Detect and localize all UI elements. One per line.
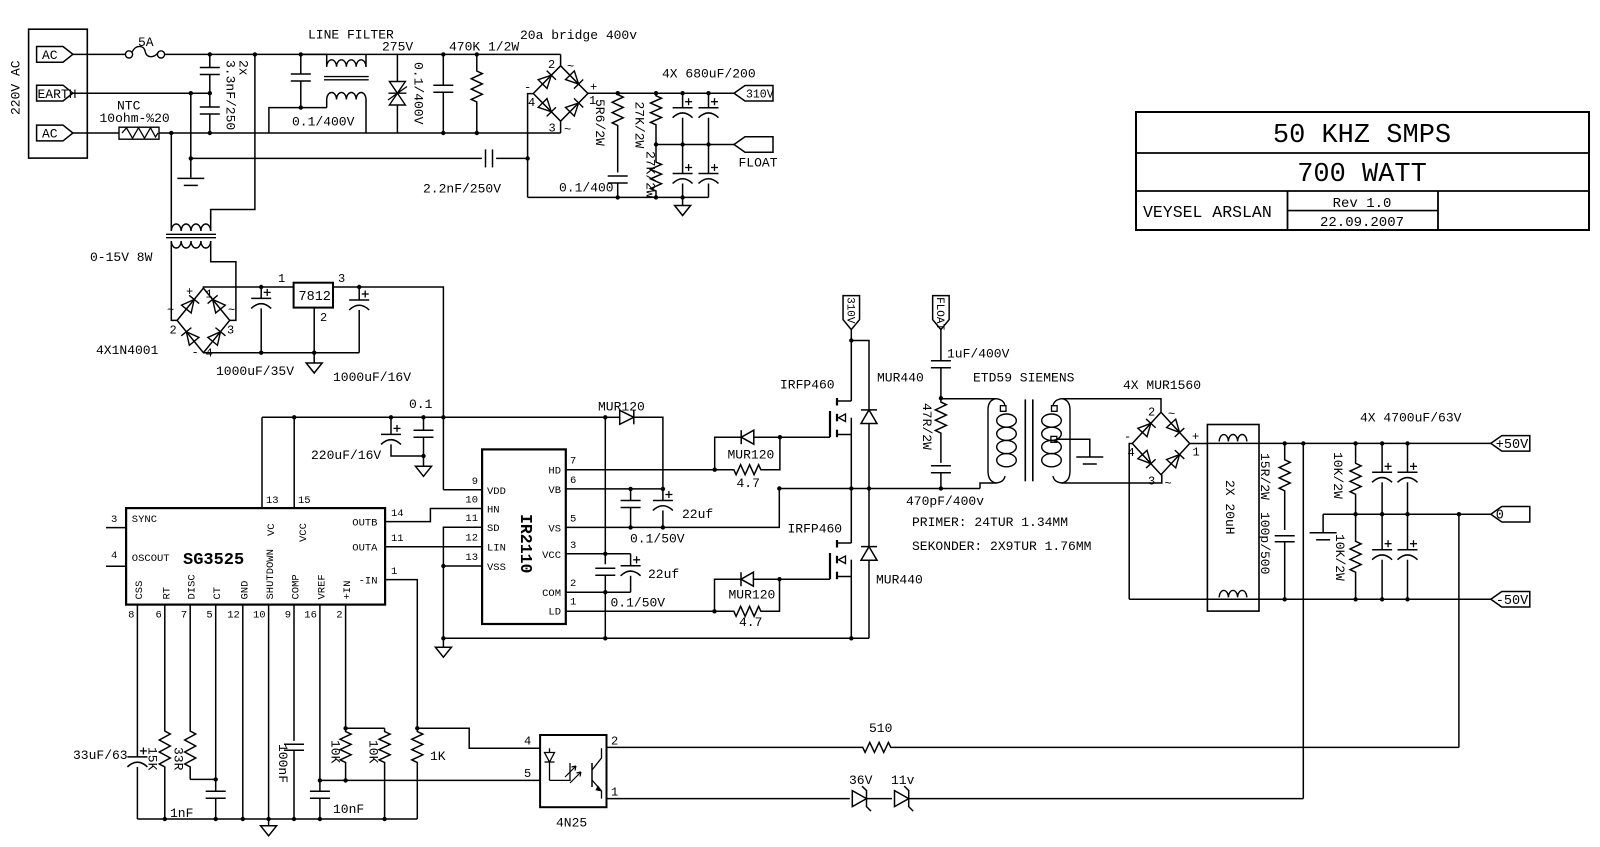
ground triangle SG3525 rail [268,819,270,826]
wire aux minus rail [203,352,359,354]
svg-text:0.1/400V: 0.1/400V [292,115,355,130]
wire bridge plus rail 310V [588,92,734,94]
wire -50V rail [1129,598,1491,600]
svg-text:OSCOUT: OSCOUT [132,553,170,565]
wire pin2 +IN down [345,605,347,729]
diode MUR120 upper gate [715,437,742,470]
resistor 27K/2W lower [651,145,662,198]
wire half-bridge mid rail [779,488,980,490]
ground triangle at 0.1 bypass [416,466,432,476]
wire 12V rail [262,416,605,418]
svg-text:2: 2 [336,610,342,622]
svg-text:20a bridge 400v: 20a bridge 400v [520,28,637,43]
svg-text:+: + [186,285,193,299]
svg-text:0.1/400V: 0.1/400V [411,62,426,125]
zener diode 36V [852,791,866,807]
wire gate upper MOSFET [780,436,830,438]
svg-text:4X MUR1560: 4X MUR1560 [1123,378,1201,393]
bridge rectifier 4X MUR1560 [1132,412,1189,474]
wire VCC pin15 riser [293,417,295,508]
4N25 internal light arrows [565,766,576,777]
resistor 4.7 upper [734,465,761,475]
resistor 10K first [346,727,385,729]
svg-text:2: 2 [1148,406,1155,420]
transformer T1 ETD59 primary [988,399,996,483]
svg-text:LD: LD [548,607,561,619]
flag FLOAT [734,137,773,153]
svg-text:2.2nF/250V: 2.2nF/250V [423,182,501,197]
wire aux plus rail [203,287,293,288]
wire 7812 ground pin 2 [313,308,315,363]
4N25 internal transistor [591,763,593,787]
svg-text:-: - [524,81,531,95]
svg-text:50 KHZ SMPS: 50 KHZ SMPS [1273,121,1451,151]
svg-text:CSS: CSS [134,581,146,600]
wire pin9 COMP down [293,605,295,741]
capacitor 2.2nF/250V [485,149,487,167]
svg-text:4X 680uF/200: 4X 680uF/200 [662,67,756,82]
wire 2.2nF to bridge minus [496,157,527,159]
resistor 470K 1/2W [471,54,482,133]
svg-text:2: 2 [611,735,618,749]
svg-text:~: ~ [567,60,574,74]
svg-text:GND: GND [239,581,251,600]
svg-text:~: ~ [167,304,174,318]
wire upper source to mid rail [850,435,852,489]
svg-text:VC: VC [266,523,278,536]
capacitor 10nF [310,790,330,792]
title block column dividers [1287,191,1289,230]
capacitor 220uF/16V [390,417,392,434]
svg-text:5: 5 [570,513,576,525]
wire mid rail to lower drain [850,489,852,544]
IC U4 4N25 body [540,735,606,807]
wire 1K node to opto pin4 [417,728,540,748]
secondary center tap square [1051,436,1057,442]
capacitor 4700uF top-right [1407,443,1409,472]
svg-text:+50V: +50V [1496,438,1529,453]
wire pin10 SHUTDOWN down [268,605,270,819]
svg-text:7: 7 [570,456,576,468]
wire bridge minus to -50V rail [1129,444,1132,600]
svg-text:2: 2 [170,324,177,338]
wire 7812 output [333,287,443,490]
svg-text:4N25: 4N25 [556,816,587,831]
SG3525 ground rail [137,818,417,820]
varistor 275V [396,54,398,81]
transistor Q2 IRFP460 lower [829,553,831,579]
svg-text:22uf: 22uf [682,507,713,522]
svg-text:SG3525: SG3525 [183,551,244,570]
wire pin6 RT down / resistor 15K [159,605,170,819]
capacitor 680uF bottom-right [708,145,710,174]
flag FLOAT above transformer [933,296,950,330]
pin 3 SYNC [106,527,126,529]
wire center tap to earth [1057,439,1090,456]
svg-text:470pF/400v: 470pF/400v [906,494,984,509]
svg-text:IRFP460: IRFP460 [788,522,843,537]
diode MUR120 lower gate [715,579,742,611]
svg-text:5: 5 [206,610,212,622]
capacitor 0.1/400V second [442,54,444,85]
resistor 10K second [379,728,390,819]
svg-text:0.1: 0.1 [409,397,433,412]
svg-text:33uF/63: 33uF/63 [73,748,128,763]
capacitor 1000uF/16V [358,287,360,300]
svg-text:DISC: DISC [187,574,199,599]
svg-text:VS: VS [548,523,561,535]
wire fuse to line-filter node [165,53,561,55]
capacitor 680uF top-right [708,93,710,108]
svg-text:HD: HD [548,466,561,478]
inductor lower winding [1219,590,1247,597]
resistor 15R/2W [1279,443,1290,530]
flag 310V above half-bridge [850,330,852,341]
svg-text:4: 4 [111,550,117,562]
svg-text:10K: 10K [328,740,343,764]
svg-text:1uF/400V: 1uF/400V [947,347,1010,362]
wire aux primary tap from AC line [211,54,255,219]
svg-text:ETD59 SIEMENS: ETD59 SIEMENS [973,371,1075,386]
wire AC line to fuse [73,53,126,55]
capacitor 4700uF bottom-left [1381,514,1383,550]
svg-text:14: 14 [391,508,404,520]
svg-text:MUR120: MUR120 [729,588,776,603]
diode MUR440 lower [868,489,870,547]
wire LD pin1 row [566,610,734,612]
line filter core [324,76,369,78]
inductor upper winding [1219,435,1247,442]
svg-text:11: 11 [465,513,478,525]
title block border [1136,112,1589,230]
transformer core ETD59 [1024,399,1026,481]
capacitor 22uf lower [630,554,632,566]
svg-text:FLOAT: FLOAT [739,156,778,171]
svg-text:1: 1 [391,566,397,578]
svg-text:510: 510 [869,721,892,736]
svg-text:1000uF/16V: 1000uF/16V [333,370,411,385]
IC U3 IR2110 body [482,449,566,624]
junction dots on AC line [208,52,212,56]
svg-text:VCC: VCC [542,550,561,562]
wire pin12 GND down [242,605,244,819]
wire gate lower MOSFET [780,578,831,580]
svg-text:~: ~ [564,123,571,137]
wire primary top lead [941,398,996,400]
svg-text:IRFP460: IRFP460 [780,378,835,393]
svg-text:1K: 1K [430,749,446,764]
svg-text:11: 11 [391,533,404,545]
svg-text:12: 12 [465,533,478,545]
svg-text:AC: AC [42,48,58,63]
capacitor 2x 3.3nF/250 lower [209,93,211,107]
svg-text:VDD: VDD [487,486,506,498]
svg-text:2: 2 [548,58,555,72]
svg-text:4.7: 4.7 [739,615,762,630]
capacitor 0.1/50V upper [630,489,632,501]
svg-text:LIN: LIN [487,543,506,555]
svg-text:0.1/50V: 0.1/50V [630,532,685,547]
svg-text:4X 4700uF/63V: 4X 4700uF/63V [1360,411,1462,426]
wire aux secondary right lead [211,241,236,320]
svg-text:22uf: 22uf [648,567,679,582]
svg-text:15: 15 [298,495,311,507]
flag -50V [1491,592,1530,608]
pin 11 OUTA wire to LIN [385,546,482,548]
capacitor 0.1 bypass [423,417,425,430]
wire VREF feedback row to opto pin5 [320,779,540,781]
wire top rail to bridge [365,53,367,55]
wire +50V rail [1207,442,1490,444]
inductor L1 2X 20uH box [1207,425,1259,612]
capacitor 0.1/400 snubber [608,175,628,177]
svg-text:COMP: COMP [291,574,303,599]
svg-text:~: ~ [1168,408,1175,422]
svg-text:5: 5 [524,767,531,781]
bridge rectifier 4X1N4001 [177,288,230,353]
svg-text:310V: 310V [843,297,855,324]
terminal AC (line) [37,47,73,63]
resistor 10K/2W upper [1350,443,1361,514]
capacitor 100nF [284,743,304,745]
wire COM row [566,591,631,593]
svg-text:2: 2 [320,311,327,325]
svg-text:VREF: VREF [316,574,328,599]
capacitor line filter 0.1/400V first [300,54,302,74]
svg-text:~: ~ [228,304,235,318]
capacitor 4700uF bottom-right [1407,514,1409,550]
resistor 5R6/2W [612,93,623,172]
svg-text:16: 16 [304,610,317,622]
bridge rectifier 20A 400V [560,54,562,66]
svg-text:0.1/50V: 0.1/50V [611,596,666,611]
polarity square secondary [1052,406,1058,412]
wire lower source to ground rail [850,577,852,639]
svg-text:COM: COM [542,588,561,600]
svg-text:10nF: 10nF [333,802,364,817]
svg-text:~: ~ [1165,477,1172,491]
wire NTC to bridge bottom [159,132,561,134]
svg-text:-: - [1124,430,1131,444]
svg-text:27K/2W: 27K/2W [632,102,647,149]
svg-text:0: 0 [1496,509,1504,524]
svg-text:5A: 5A [138,35,154,50]
svg-text:220uF/16V: 220uF/16V [311,448,381,463]
capacitor 22uf upper [662,489,664,501]
svg-text:MUR440: MUR440 [876,573,923,588]
ground rail IR2110 / MOSFET source [443,637,869,639]
capacitor 2x 3.3nF/250 upper [209,54,211,67]
svg-text:HN: HN [487,505,500,517]
svg-text:4: 4 [524,735,531,749]
svg-text:MUR120: MUR120 [598,400,645,415]
capacitor 470pF/400v [931,465,951,467]
fuse F1 5A [125,51,132,58]
resistor 510 [851,742,904,752]
resistor 27K/2W upper [651,93,662,144]
svg-text:33R: 33R [171,747,186,771]
wire EARTH [73,92,210,94]
pin 14 OUTB [385,509,482,522]
svg-text:15R/2W: 15R/2W [1257,453,1272,500]
svg-text:5R6/2W: 5R6/2W [592,99,607,146]
svg-text:VCC: VCC [298,523,310,542]
capacitor 680uF bottom-left [682,145,684,174]
svg-text:275V: 275V [382,40,413,55]
svg-text:1: 1 [1193,446,1200,460]
wire earth drop to 2.2nF row [190,93,192,158]
wire secondary bottom lead to bridge [1062,475,1162,483]
svg-text:220V AC: 220V AC [9,60,24,115]
svg-text:4X1N4001: 4X1N4001 [96,343,159,358]
wire 0V rail [1323,513,1491,515]
svg-text:3.3nF/250: 3.3nF/250 [223,60,238,130]
flag +50V [1491,436,1530,452]
svg-text:9: 9 [472,476,478,488]
wire primary bottom lead [980,483,996,489]
wire negative rail [528,196,709,198]
svg-text:36V: 36V [849,773,873,788]
inductor line filter lower winding [327,92,366,99]
wire VDD pin9 stub [443,489,482,491]
svg-text:VSS: VSS [487,562,506,574]
svg-text:-50V: -50V [1496,594,1529,609]
svg-text:VB: VB [548,485,561,497]
capacitor 1000uF/35V [260,287,262,298]
svg-text:10K/2W: 10K/2W [1332,534,1347,581]
svg-text:13: 13 [465,552,478,564]
svg-text:4: 4 [528,96,535,110]
wire 0V to 510 feedback drop [1458,514,1460,747]
svg-text:6: 6 [155,610,161,622]
svg-text:10K/2W: 10K/2W [1330,452,1345,499]
wire VC pin13 riser [261,417,263,508]
svg-text:8: 8 [128,610,134,622]
svg-text:SD: SD [487,523,500,535]
svg-text:10K: 10K [366,740,381,764]
thermistor NTC 10ohm-%20 [119,127,159,139]
wire 4N25 pin2 row 510 [607,746,851,748]
capacitor 680uF top-left [682,93,684,108]
wire 2.2nF row [191,157,482,159]
svg-text:11v: 11v [891,773,915,788]
svg-text:15K: 15K [145,747,160,771]
wire SD pin11 to ground vertical [443,527,482,638]
capacitor 0.1/50V lower [595,567,615,569]
flag 310V [734,85,773,101]
ground earth symbol at input [190,158,192,177]
wire HO pin7 row [566,469,734,471]
svg-text:SYNC: SYNC [132,514,157,526]
wire aux secondary left lead [171,241,177,320]
flag 0 [1491,506,1530,522]
svg-text:OUTA: OUTA [352,543,378,555]
transformer T1 secondary [1062,399,1070,483]
svg-text:-IN: -IN [359,576,378,588]
svg-text:3: 3 [549,122,556,136]
svg-text:27K/2W: 27K/2W [643,151,658,198]
svg-text:FLOAT: FLOAT [933,297,945,330]
svg-text:3: 3 [1148,475,1155,489]
svg-text:22.09.2007: 22.09.2007 [1320,215,1404,231]
wire AC neutral / NTC row [73,132,119,134]
wire secondary top lead to bridge [1062,399,1161,413]
pin 4 OSCOUT [106,565,126,567]
terminal EARTH [37,85,73,101]
svg-text:700 WATT: 700 WATT [1297,160,1427,190]
wire VCC row extension [566,553,631,555]
svg-text:100p/500: 100p/500 [1257,512,1272,574]
svg-text:+: + [1192,430,1199,444]
svg-text:IR2110: IR2110 [516,514,535,573]
svg-text:10ohm-%20: 10ohm-%20 [100,111,170,126]
terminal AC (neutral) [37,125,73,141]
wire FLOAT rail [656,144,734,146]
svg-text:47R/2W: 47R/2W [919,403,934,450]
svg-text:3: 3 [111,514,117,526]
svg-text:10: 10 [465,495,478,507]
svg-text:3: 3 [338,272,345,286]
svg-text:310V: 310V [746,89,774,102]
IC U1 SG3525 body [126,508,385,604]
resistor 47R/2W [935,398,946,463]
capacitor 100p/500 [1275,535,1295,537]
pin 1 -IN [385,580,417,729]
wire bridge plus to inductor [1190,443,1208,445]
capacitor 4700uF top-left [1381,443,1383,472]
svg-text:100nF: 100nF [275,744,290,783]
svg-text:10: 10 [253,610,266,622]
svg-text:9: 9 [285,610,291,622]
wire VB row [566,488,663,490]
wire 310V rail to upper drain [850,341,852,402]
svg-text:0.1/400: 0.1/400 [559,181,614,196]
svg-text:3: 3 [570,540,576,552]
transformer aux 0-15V 8W primary [171,224,210,231]
svg-text:Rev 1.0: Rev 1.0 [1333,196,1392,212]
wire pin16 VREF down [319,605,321,792]
wire 4N25 pin1 zener row [607,798,850,800]
wire VCC pin3 riser [566,553,606,555]
svg-text:+: + [590,81,597,95]
svg-text:RT: RT [161,587,173,600]
svg-text:2: 2 [570,578,576,590]
wire line filter cap bottom jog [269,108,301,133]
resistor 1K [415,726,419,730]
transistor Q1 IRFP460 upper [829,411,831,437]
svg-text:SHUTDOWN: SHUTDOWN [265,549,277,599]
4N25 internal LED [549,748,551,752]
wire pin7 DISC down / resistor 33R [185,605,196,780]
wire pin8 CSS down [136,605,138,757]
resistor 10K/2W lower [1350,514,1361,599]
svg-text:EARTH: EARTH [38,87,77,102]
svg-text:3: 3 [227,324,234,338]
svg-text:+IN: +IN [342,581,354,600]
svg-text:12: 12 [227,610,240,622]
svg-text:PRIMER: 24TUR 1.34MM: PRIMER: 24TUR 1.34MM [912,515,1068,530]
svg-text:4: 4 [206,347,213,361]
svg-text:MUR120: MUR120 [728,448,775,463]
svg-text:470K 1/2W: 470K 1/2W [449,40,519,55]
transformer aux secondary [171,241,210,248]
svg-text:1: 1 [570,597,576,609]
svg-text:1000uF/35V: 1000uF/35V [216,364,294,379]
svg-text:-: - [192,346,199,360]
ground triangle negative rail [682,197,684,205]
wire feedback +50V drop [1302,443,1304,798]
svg-text:1: 1 [611,786,618,800]
